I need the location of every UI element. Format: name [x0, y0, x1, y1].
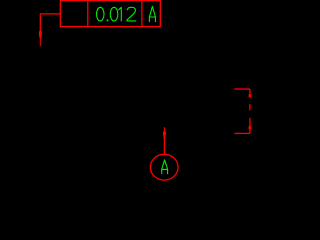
- dimension arrowhead (up): [249, 94, 252, 97]
- tolerance digit 0 (second): [110, 7, 118, 21]
- tolerance digit 2: [127, 7, 136, 21]
- tolerance digit 1: [119, 7, 122, 21]
- tolerance decimal point: [107, 20, 109, 22]
- tolerance digit 0: [97, 7, 105, 21]
- dimension line middle dash: [249, 104, 251, 110]
- dimension line segment bottom: [249, 118, 251, 133]
- dimension bottom edge: [234, 132, 250, 134]
- cell divider 1: [87, 1, 89, 27]
- datum reference letter A in frame: [149, 6, 155, 21]
- leader arrowhead (down): [39, 31, 42, 37]
- dimension line segment top: [249, 89, 251, 98]
- leader line from frame: [40, 14, 60, 32]
- feature control frame outline: [40, 1, 250, 181]
- dimension arrowhead (down): [249, 126, 252, 129]
- dimension top edge: [234, 88, 250, 90]
- datum arrowhead (up): [164, 127, 165, 131]
- datum balloon circle: [150, 154, 178, 180]
- cell divider 2: [141, 1, 143, 27]
- datum leader shaft: [163, 138, 165, 155]
- datum letter A in balloon: [162, 160, 168, 174]
